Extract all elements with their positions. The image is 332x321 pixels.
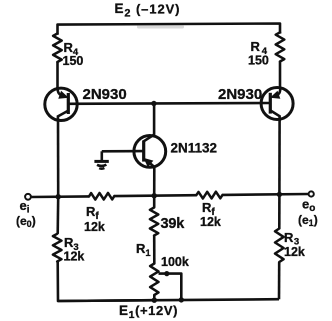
- svg-text:R1: R1: [136, 241, 151, 259]
- wire R3 left to E1 rail: [58, 262, 155, 302]
- node 100k bottom on E1 rail: [152, 298, 157, 303]
- svg-text:12k: 12k: [200, 215, 221, 229]
- resistor Rf right: [196, 192, 222, 199]
- transistor Q2 2N930 right: [261, 87, 293, 121]
- wire E1 supply rail bottom: [58, 299, 279, 301]
- wire right node to R3 right: [278, 194, 281, 228]
- svg-text:2N1132: 2N1132: [171, 141, 218, 156]
- node 100k tap: [164, 271, 169, 276]
- node tap bottom on E1 rail: [179, 297, 184, 302]
- wire E2 supply rail top: [58, 24, 281, 34]
- terminal e_i left: [25, 194, 31, 200]
- wire base rail connecting Q1 and Q2 bases: [68, 102, 270, 105]
- wire Q1 collector down to left node: [57, 119, 60, 197]
- svg-text:(e0): (e0): [16, 214, 36, 229]
- svg-text:2N930: 2N930: [83, 86, 127, 103]
- svg-text:(e1): (e1): [298, 213, 318, 228]
- svg-text:2N930: 2N930: [218, 86, 262, 103]
- wire Q3 base to ground: [102, 150, 144, 153]
- wire input to left node: [31, 195, 89, 198]
- terminal e_o right: [309, 191, 314, 196]
- transistor Q1 2N930 left: [45, 87, 77, 121]
- wire Q2 collector down to right node: [278, 119, 281, 195]
- wire 39k to 100k (R1): [153, 236, 156, 264]
- svg-text:eo: eo: [302, 197, 315, 215]
- svg-text:12k: 12k: [64, 250, 85, 264]
- resistor R3 left: [53, 234, 62, 262]
- node base rail / Q3 top junction: [151, 101, 156, 106]
- svg-text:E1(+12V): E1(+12V): [119, 303, 178, 321]
- svg-text:150: 150: [63, 54, 84, 68]
- wire Rf right to output: [223, 193, 309, 196]
- wire 100k bottom to E1 rail: [153, 295, 156, 300]
- resistor R4 right: [276, 32, 285, 61]
- resistor 39k: [150, 208, 158, 236]
- wire Q3 emitter down to middle node: [153, 166, 156, 196]
- wire R3 right to E1 rail: [278, 262, 281, 299]
- resistor Rf left: [89, 193, 114, 200]
- node left junction: [56, 194, 61, 199]
- transistor Q3 2N1132 middle: [134, 135, 166, 168]
- wire middle node to 39k: [153, 196, 156, 208]
- scan smudge under E2 rail: [137, 25, 184, 28]
- node middle junction: [152, 193, 157, 198]
- svg-text:39k: 39k: [161, 216, 186, 232]
- resistor R3 right: [275, 229, 284, 263]
- svg-text:E2 (–12V): E2 (–12V): [115, 1, 181, 19]
- svg-text:12k: 12k: [84, 220, 105, 234]
- wire R4 left to Q1 emitter: [56, 62, 59, 89]
- wire 100k tap to E1 rail: [159, 274, 182, 300]
- svg-text:100k: 100k: [161, 255, 189, 269]
- wire base rail to Q3 collector: [153, 104, 156, 136]
- node right junction: [277, 192, 282, 197]
- wire R4 right to Q2 emitter: [279, 62, 282, 89]
- ground symbol: [94, 151, 108, 168]
- resistor R4 left: [53, 34, 62, 63]
- svg-text:150: 150: [248, 54, 269, 68]
- wire left node to R3 left: [56, 197, 59, 234]
- svg-text:12k: 12k: [284, 245, 305, 259]
- wire Rf left to middle node: [114, 194, 196, 198]
- resistor 100k R1: [150, 264, 158, 296]
